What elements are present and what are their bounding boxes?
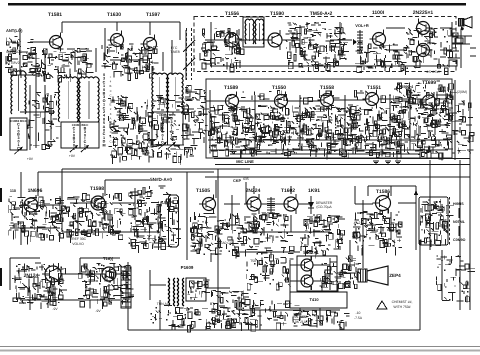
arrow up [414,190,418,195]
transistor T1551 [363,90,379,109]
RC network T1598 [66,193,125,243]
bottom misc clutter [151,305,234,332]
RC network 2N124 [12,263,67,309]
label 2N124 [24,273,39,279]
IF transformer Z3 [152,73,183,149]
wire MIC LINE [214,159,470,165]
wires between banks [27,85,60,150]
transistor T1550 [272,92,288,111]
label COMBO [453,238,466,242]
transistor 5542 lower [298,272,313,290]
RC network driver [355,42,409,72]
RC network T1505 [190,212,247,262]
transistor T1556 [222,30,239,50]
RC cluster 5542 left [338,256,361,292]
choke ladder [121,267,131,308]
transistor 5542 upper [298,256,313,274]
RC network row2 a [208,105,274,158]
label T1590 [270,11,284,17]
tuning gang C-var [183,28,195,80]
label P1609 [181,265,194,270]
RC network 1K91 [300,215,345,259]
label T1630 [107,12,121,18]
label 5N#D-AX0 [150,177,172,182]
wire to ZEP4 [362,200,364,268]
wires 2N124 area [10,258,130,310]
transistor 2N225 lower [417,41,433,60]
wires P1609 [128,252,420,330]
wires T1505 [187,172,246,260]
RC network T1613 [78,263,134,309]
bottom right wires [350,160,442,330]
label 45-2 [354,221,361,238]
IF transformer Z2 [61,77,99,152]
wires row2 [206,80,455,160]
label T1581 [48,12,62,18]
transistor T1590 [265,30,282,50]
RC network around T1581 [29,48,94,82]
RC network tone [285,22,349,71]
potentiometer [267,197,275,213]
wires 1N696 area [10,172,214,245]
electrolytic can [169,195,182,247]
label T1586 [376,189,390,195]
label T1590-4 [399,85,414,89]
transistor T1699 [419,92,436,112]
module box (audio amp) dashed [194,17,456,72]
RC network T1586 [353,211,403,256]
label 1N696 [10,188,43,194]
label HIGH [453,202,464,206]
label T1550 [272,85,286,91]
volume pot [353,30,363,54]
wire CKP [205,177,470,183]
label 5542x1 [303,250,319,255]
label T1505 [196,188,210,194]
transistor T1630 [108,31,124,50]
RC network 1N696 [8,197,68,245]
transistor 2N224 [244,194,261,214]
label 1K91 [308,188,320,194]
transistor T1589 [223,92,239,111]
wires audio module [205,22,452,66]
transistor 1N696 [21,195,38,215]
wire right trunk [460,80,470,310]
label T1598 [90,186,104,192]
transistor T1558 [318,91,334,110]
wires T410 area [240,308,340,330]
RC network around T1630 [101,44,158,81]
wire bus top-left [20,22,180,75]
transistor 2N225 upper [417,19,433,38]
parts under 5542 [235,259,300,331]
label DEWATER [316,201,333,209]
speaker SP2 ZEP4 [358,266,388,285]
small parts right of T1551 [227,81,454,106]
output stage parts [405,28,459,75]
label NORMAL [453,220,466,224]
wires 5542 [290,258,356,292]
label VOL [355,23,369,28]
label T1602 [281,188,295,194]
vertical text column OSC [102,73,111,147]
label 1100I [372,10,385,16]
border top rule [8,3,466,5]
transistor T1602 [281,194,298,214]
terminal strip dashed edge [449,197,451,245]
labels -9V [52,307,101,313]
label 2N225x1 [413,10,434,16]
labels 7017 [292,311,363,324]
RC network lower right edge [436,255,475,302]
label T1597 [146,12,160,18]
label TUN AC [157,302,170,306]
speaker SP1 (top right) [459,17,473,45]
label T1556 [225,11,239,17]
label 635 [243,177,249,181]
antenna input network [5,36,39,78]
transistor driver 1100I [370,30,386,49]
box 5542 module [297,256,337,291]
label T1589 [224,85,238,91]
label 2N224 [246,188,261,194]
IF transformer Z1 [58,77,78,122]
RC network row2 d [388,92,458,161]
scan edge mark left [0,52,2,286]
wires 2N224 area [240,186,330,232]
transformer P1609 [168,278,210,306]
label VREF [70,237,87,246]
box T410 [290,292,347,308]
label T1699 [422,80,436,86]
switch link line [458,208,460,236]
ground symbols mid [373,161,401,164]
label TM50-A+2 [310,11,333,17]
wire module top mid [62,169,250,232]
RC network T410 [293,310,350,329]
RC network 2N224 [242,213,293,245]
antenna coil L1 [10,71,28,154]
label SEAL COL [218,241,235,245]
wires T1598 area [62,180,160,232]
label T410 [309,297,319,302]
warning triangle [377,301,387,309]
RC cluster 5542 right [320,262,342,290]
label ZEP4 [389,273,401,278]
transistor T1505 [200,195,216,214]
IF can small [243,17,264,47]
label CHEMIST [392,300,413,309]
border bottom double rule [0,347,480,351]
label T1551 [367,85,381,91]
transistor T1581 [47,33,63,52]
terminal strip box [419,197,454,247]
transistor T1586 [373,193,391,214]
label T1613 [103,256,114,261]
RC network mid misc [128,186,175,253]
wire grid top-left [11,28,186,112]
transistor T1613 [99,264,116,284]
RC network audio in [200,28,244,72]
transistor 2N124 [42,263,61,285]
RC network row2 b [268,106,335,160]
wire module left edge [217,169,219,310]
oscillator network T1597 [108,95,194,165]
transistor T1597 [141,35,157,54]
RC network row2 c [329,105,395,159]
right column parts [452,100,474,154]
labels 4.5W [426,70,467,94]
label T1558 [320,85,334,91]
transistor T1598 [88,193,105,213]
label FI C [170,46,179,54]
RC network mid bottom [246,246,295,290]
label ANT [6,28,23,65]
labels +9V below banks [27,153,123,161]
wires T1586 [355,186,416,250]
RC network P1609 right [211,291,261,332]
module box row2 [206,79,452,158]
diode 1K91 [308,196,314,214]
RC network right of Z3 [184,85,211,155]
headphone jack marks [448,36,476,68]
